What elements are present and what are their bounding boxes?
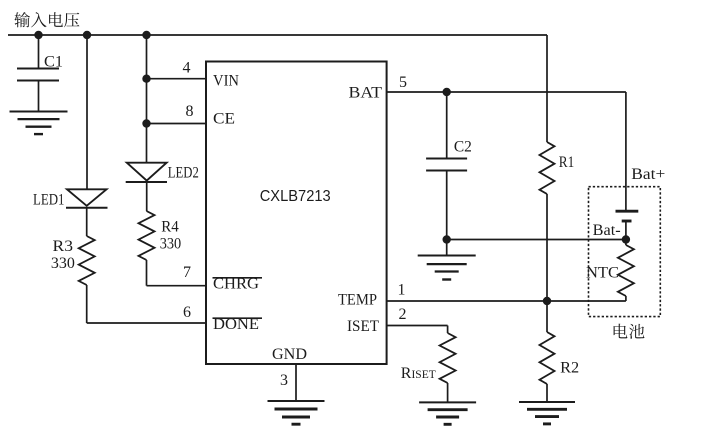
svg-text:TEMP: TEMP (338, 292, 377, 309)
svg-text:VIN: VIN (213, 73, 239, 90)
svg-text:2: 2 (399, 306, 407, 323)
svg-text:GND: GND (272, 346, 307, 363)
svg-text:1: 1 (398, 282, 406, 299)
svg-text:Bat-: Bat- (593, 222, 621, 239)
svg-text:7: 7 (183, 264, 191, 281)
svg-text:330: 330 (51, 255, 75, 272)
svg-text:CXLB7213: CXLB7213 (260, 188, 331, 205)
svg-text:RISET: RISET (401, 365, 436, 382)
svg-text:BAT: BAT (349, 85, 383, 102)
svg-text:8: 8 (186, 103, 194, 120)
svg-text:C1: C1 (44, 54, 63, 71)
svg-text:LED1: LED1 (33, 192, 65, 209)
svg-text:330: 330 (160, 236, 182, 253)
svg-text:Bat+: Bat+ (631, 166, 665, 183)
svg-text:C2: C2 (454, 139, 472, 156)
svg-text:ISET: ISET (347, 318, 379, 335)
svg-text:CE: CE (213, 111, 235, 128)
svg-text:5: 5 (399, 74, 407, 91)
svg-text:R2: R2 (560, 360, 579, 377)
svg-text:6: 6 (183, 304, 191, 321)
svg-text:R1: R1 (559, 154, 575, 171)
svg-text:4: 4 (183, 60, 191, 77)
svg-text:NTC: NTC (586, 265, 619, 282)
svg-text:LED2: LED2 (168, 165, 199, 182)
svg-text:3: 3 (280, 372, 288, 389)
svg-text:R4: R4 (161, 219, 179, 236)
svg-text:R3: R3 (53, 238, 74, 255)
